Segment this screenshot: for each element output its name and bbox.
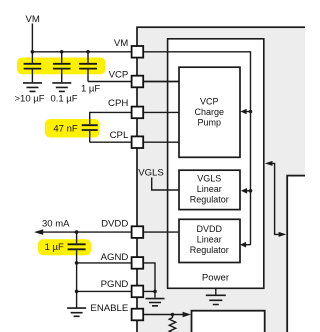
pin CPH [108, 98, 143, 118]
op block U1: VCP charge pump [179, 67, 240, 157]
regulator block U2: VGLS linear regulator [179, 170, 240, 209]
node junction on VM rail at C2 [60, 50, 64, 54]
wire VM bus feed into VGLS regulator [241, 188, 252, 194]
svg-text:CPL: CPL [110, 130, 129, 141]
ground for AGND/PGND [67, 308, 86, 316]
svg-text:>10 µF: >10 µF [14, 93, 44, 104]
node junction on VM rail at C1 [31, 50, 35, 54]
svg-text:Pump: Pump [198, 117, 222, 127]
pin ENABLE [90, 303, 143, 320]
svg-text:VM: VM [114, 38, 128, 49]
svg-text:VGLS: VGLS [138, 168, 164, 179]
ground for C1 [23, 83, 42, 92]
wire internal PGND to star ground [143, 291, 155, 297]
resistor R1 pulldown on ENABLE [169, 315, 175, 332]
highlighter mark over 47 nF label and capacitor [45, 119, 100, 138]
ground for Power block [206, 288, 226, 304]
wire DVDD pin line with 30 mA load arrow [34, 229, 179, 235]
node junction PGND [75, 290, 79, 294]
svg-text:VGLS: VGLS [197, 173, 221, 183]
svg-text:VCP: VCP [200, 96, 219, 106]
wire AGND pin to ground chain [77, 262, 137, 264]
svg-text:47 nF: 47 nF [53, 124, 77, 135]
pin VM [114, 38, 143, 58]
svg-text:1 µF: 1 µF [81, 84, 100, 95]
capacitor C3 1 µF (VM to VCP) [79, 52, 179, 82]
svg-text:PGND: PGND [101, 279, 129, 290]
svg-text:Linear: Linear [197, 184, 222, 194]
wire Power block to top-right block [265, 161, 287, 237]
svg-text:0.1 µF: 0.1 µF [50, 93, 77, 104]
wire PGND pin to ground chain [77, 290, 137, 292]
capacitor C1 >10 µF [24, 52, 42, 82]
node junction internal ground [153, 290, 157, 294]
svg-text:ENABLE: ENABLE [90, 303, 128, 314]
Power sub-block outline [168, 39, 264, 288]
svg-text:Regulator: Regulator [190, 195, 229, 205]
wire VCP pin to charge pump [143, 81, 179, 83]
svg-text:CPH: CPH [108, 98, 128, 109]
svg-text:30 mA: 30 mA [42, 218, 70, 229]
capacitor C4 47 nF (CPH to CPL) [82, 125, 179, 142]
svg-text:AGND: AGND [101, 252, 129, 263]
node junction AGND [75, 261, 79, 265]
svg-text:VCP: VCP [109, 69, 129, 80]
svg-text:DVDD: DVDD [101, 218, 128, 229]
wire VM bus feed into DVDD regulator [240, 242, 251, 248]
wire CPH pin to charge pump and down to C4 [90, 112, 179, 124]
regulator block U3: DVDD linear regulator [179, 219, 240, 262]
node junction DVDD at C5 [75, 230, 79, 234]
node junction ENABLE [171, 313, 175, 317]
wire VM: stub from label, rail across caps to VM pin, into internal bus [32, 24, 250, 245]
highlighter mark over 1 µF DVDD capacitor [38, 239, 91, 255]
wire VM bus feed into charge pump [240, 109, 252, 115]
svg-text:1 µF: 1 µF [45, 242, 64, 253]
capacitor C5 1 µF (DVDD) [68, 232, 86, 308]
wire ENABLE pin into logic block [143, 312, 191, 318]
wire internal AGND to star ground [143, 263, 155, 292]
highlighter mark over VM bulk capacitors [17, 58, 106, 75]
capacitor C2 0.1 µF [53, 52, 71, 82]
block (bottom, cut off) [192, 311, 265, 332]
pin DVDD [101, 218, 143, 238]
IC device boundary (gray body) [137, 27, 309, 332]
block (top right, cut off) [287, 176, 317, 332]
wire VGLS node into VGLS regulator [152, 178, 179, 191]
ground for C2 [52, 83, 71, 92]
svg-text:Regulator: Regulator [190, 245, 229, 255]
svg-text:Charge: Charge [195, 107, 225, 117]
pin PGND [101, 279, 144, 297]
ground internal (AGND/PGND tie) [146, 299, 165, 306]
pin VCP [109, 69, 144, 87]
node junction on VM rail at C3 [86, 50, 90, 54]
pin CPL [110, 130, 144, 148]
svg-text:Linear: Linear [197, 234, 222, 244]
pin AGND [101, 252, 144, 269]
svg-text:DVDD: DVDD [197, 224, 223, 234]
svg-text:Power: Power [202, 273, 230, 284]
